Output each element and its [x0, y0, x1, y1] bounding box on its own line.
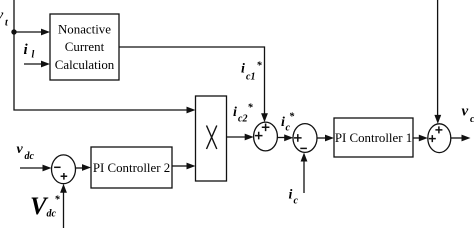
svg-text:*: * [257, 61, 263, 72]
summer S1 plus left [255, 132, 263, 140]
multiplier X symbol [207, 126, 217, 150]
svg-text:dc: dc [25, 151, 35, 162]
svg-text:*: * [55, 195, 61, 206]
summer S2 [293, 124, 317, 153]
wire i_c into S2 [303, 158, 305, 193]
wire feedforward vertical into S3 [437, 0, 439, 118]
wire v_t to Nonactive box [14, 31, 42, 33]
arrowhead v_c output [462, 135, 471, 142]
summer S0 minus left [54, 166, 61, 168]
block PI Controller 2 [91, 147, 172, 188]
svg-text:Nonactive: Nonactive [58, 23, 111, 37]
arrowhead multiplier out into S1 [245, 134, 254, 141]
wire PI2 to multiplier [172, 165, 187, 167]
svg-text:c: c [286, 123, 291, 134]
svg-text:c: c [294, 196, 299, 207]
arrowhead v_t into multiplier [187, 107, 196, 114]
wire S0 to PI Controller 2 [76, 167, 84, 169]
summer S0 plus bottom [61, 173, 68, 180]
arrowhead S2 into PI1 [325, 135, 334, 142]
svg-text:c2: c2 [238, 114, 247, 125]
svg-text:l: l [32, 50, 35, 61]
wire PI1 to summer S3 [413, 137, 421, 139]
wire V_dc* into S0 [63, 190, 65, 229]
summer S0 [52, 155, 76, 184]
summer S1 plus top [262, 124, 270, 132]
svg-text:v: v [462, 104, 469, 120]
arrowhead feedforward into S3 [434, 115, 441, 124]
svg-text:c: c [470, 114, 474, 125]
summer S1 [254, 122, 278, 151]
wire i_l arrow [24, 63, 42, 65]
wire v_t vertical and horizontal to multiplier [14, 0, 187, 110]
svg-text:PI Controller 1: PI Controller 1 [335, 131, 412, 145]
arrowhead S1 to S2 [284, 134, 293, 141]
summer S2 plus left [294, 134, 302, 142]
arrowhead S0 into PI2 [82, 164, 91, 171]
junction dot v_t [11, 29, 16, 34]
svg-text:Current: Current [65, 40, 105, 54]
svg-text:dc: dc [47, 209, 57, 220]
arrowhead i_c1* into S1 [261, 113, 268, 122]
svg-text:*: * [248, 103, 254, 114]
svg-text:i: i [233, 105, 237, 120]
svg-text:v: v [0, 8, 4, 24]
wire S1 to S2 [277, 137, 286, 139]
svg-text:PI Controller 2: PI Controller 2 [93, 161, 170, 175]
wire i_c1* from box to summer S1 [119, 47, 265, 114]
wire v_dc arrow [20, 167, 44, 169]
arrowhead PI2 into multiplier [187, 163, 196, 170]
multiplier block [196, 96, 227, 181]
svg-text:i: i [281, 115, 285, 130]
block PI Controller 1 [334, 118, 413, 157]
block Nonactive Current Calculation [50, 14, 119, 80]
wire multiplier to summer S1 [227, 136, 247, 138]
arrowhead PI1 into S3 [419, 135, 428, 142]
arrowhead i_l into box [41, 61, 50, 68]
arrowhead v_dc into S0 [43, 165, 52, 172]
arrowhead v_t into box [41, 29, 50, 36]
svg-text:t: t [5, 18, 9, 29]
summer S3 [428, 124, 451, 153]
svg-text:i: i [24, 42, 29, 58]
wire S2 to PI Controller 1 [317, 137, 327, 139]
svg-text:i: i [241, 62, 245, 77]
summer S2 minus bottom [300, 147, 307, 149]
svg-text:c1: c1 [246, 72, 255, 83]
svg-text:*: * [289, 112, 295, 123]
arrowhead i_c into S2 [301, 153, 308, 162]
summer S3 plus top [435, 126, 442, 133]
wire S3 output v_c [451, 137, 463, 139]
svg-text:i: i [289, 188, 293, 203]
svg-text:v: v [17, 142, 24, 157]
summer S3 plus left [429, 135, 436, 142]
svg-text:Calculation: Calculation [55, 58, 115, 72]
arrowhead V_dc* into S0 [60, 184, 67, 193]
